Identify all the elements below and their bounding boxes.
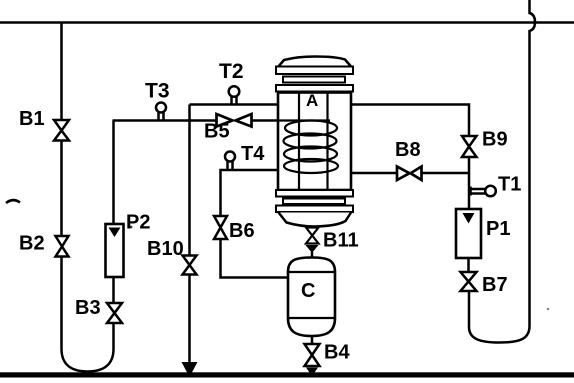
svg-text:B1: B1 [19,108,45,130]
wire: B3 to P2 riser [112,277,115,303]
vessel A top dome [278,57,352,68]
svg-text:T3: T3 [145,80,170,103]
wire: vessel A right nozzle through B8 to riser junction [351,172,397,175]
vessel A shell body [278,93,351,191]
svg-text:B8: B8 [395,139,421,161]
coil turn 3 [284,147,337,162]
svg-text:B10: B10 [147,238,184,260]
vessel A bottom flange plate 1 [276,190,353,197]
sensor T2 [229,86,240,104]
valve B5 (horizontal) [217,114,252,127]
svg-text:T1: T1 [498,174,521,196]
svg-text:T2: T2 [219,60,244,83]
svg-text:B6: B6 [229,220,255,242]
vessel A bottom flange plate 3 [276,206,353,213]
wire: vessel C to B4 [311,336,314,344]
svg-text:B4: B4 [324,342,350,364]
svg-text:B11: B11 [323,230,359,252]
vessel A bottom dome [279,213,352,227]
valve B4 [305,344,320,366]
svg-text:B5: B5 [204,121,230,143]
wire: T3/B5 line into coil of vessel A [113,119,217,122]
coil turn 2 [284,134,337,149]
wire: B11 to vessel C [311,252,314,258]
sensor T4 [225,152,235,170]
vessel C bottom seam [288,317,335,319]
vessel A bottom flange plate 2 [283,199,345,205]
wire: top supply header line [0,21,574,24]
vessel A top flange plate 3 [276,85,353,92]
svg-text:P2: P2 [126,212,150,234]
wire: B6 to vessel C inlet [221,239,289,278]
pump P2 (rotameter body) [106,224,124,277]
svg-text:B3: B3 [75,297,101,319]
coil turn 1 [285,121,337,136]
svg-text:T4: T4 [241,143,265,165]
svg-text:C: C [301,280,315,302]
pump P1 (rotameter body) [456,209,481,258]
svg-text:B7: B7 [482,274,508,296]
valve B1 [54,120,69,141]
sensor T3 [156,103,166,120]
valve B3 [107,303,122,323]
wire: left branch drop from header through B1,B2 [60,23,63,120]
vessel A top flange plate 2 [283,77,345,83]
valve B2 [56,236,69,257]
valve B6 [214,216,227,239]
wire: B9 to P1 riser [468,157,471,209]
wire: P1 to B7 [467,258,470,272]
wire: bottom left U-bend between B2 line and B3 line [62,256,114,372]
bottom border line [0,372,574,377]
arrow: B11 outlet flow arrow [306,245,319,253]
valve B7 [461,272,477,291]
svg-text:B9: B9 [482,129,508,151]
wire: vessel A top right nozzle to B9 corner [351,105,469,137]
pump P2 float indicator [109,228,121,238]
wire: T4 line from coil bottom to B6 branch [221,170,288,216]
sensor T1 [470,186,496,197]
valve B8 (horizontal) [397,167,422,181]
vessel A inner tube right wall [326,93,328,191]
valve B11 [306,228,319,244]
svg-text:P1: P1 [486,218,510,240]
stray mark left margin [6,200,20,203]
wire: T2 header line to vessel A left nozzle [190,103,279,106]
pump P1 float indicator [463,213,475,224]
vessel C top seam [288,271,335,273]
wire: P2 top riser to corner [112,121,115,225]
coil turn 4 [284,159,338,173]
arrow: B10 outlet arrowhead at drain [182,362,198,377]
valve B9 [462,136,477,157]
wire: B10 drop line [188,105,191,256]
wire: right riser with line hop over header [469,0,535,343]
svg-text:B2: B2 [19,233,45,255]
valve B10 [183,256,197,275]
vessel C body [288,258,335,337]
vessel A top flange plate 1 [276,67,353,75]
wire: B5 line segment inside vessel to coil top [278,119,330,121]
svg-text:A: A [306,91,318,110]
vessel A inner tube left wall [298,93,300,191]
arrow: B4 outlet flow arrow [306,368,318,377]
stray dot near P2 [130,226,133,229]
stray dot right [547,308,550,311]
